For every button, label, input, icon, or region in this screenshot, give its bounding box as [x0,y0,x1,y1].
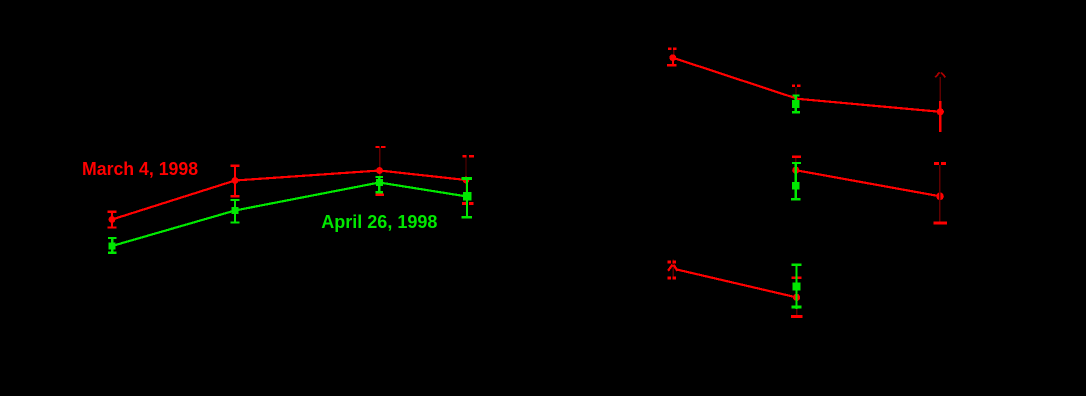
right panel: middle left red marker [792,167,799,174]
right panel: bottom red series line [676,269,797,297]
left panel: red point P1 error bar [108,211,117,229]
right panel: top line point A marker [669,54,676,61]
right panel: top red series line [673,58,941,112]
right panel: bottom right red error bar [791,277,802,318]
left panel: red point P1 marker [109,216,116,223]
right panel: middle left red error bar [792,155,801,166]
left panel: red point P4 error bar dashed [462,155,474,205]
right panel: bottom left red error bar dashes [668,260,677,280]
left panel: green point P4 error bar [462,177,473,218]
left panel: red point P2 marker [232,177,239,184]
text label April 26, 1998 [321,212,437,233]
left panel: red point P4 marker [463,177,470,184]
left panel: green point P2 marker [232,207,239,214]
left panel: green point P1 error bar [108,237,117,254]
left panel: red point P3 error bar dashed top [375,146,385,196]
left panel: red point P2 error bar [231,165,240,198]
left panel: green point P4 marker [463,192,472,200]
text label March 4, 1998 [82,159,198,180]
right panel: point B upper caret [935,72,945,77]
left panel: red series line March 4 [112,171,466,220]
right panel: bottom green marker [793,282,801,290]
right panel: bottom right red marker [793,294,800,301]
right panel: middle red series line [796,170,940,196]
left panel: green point P3 error bar [375,176,383,194]
right panel: bottom left caret marker [668,265,677,271]
right panel: top line green marker [792,100,800,108]
right panel: top line point B marker [937,108,944,115]
left panel: green series line April 26 [112,183,467,247]
left panel: green point P3 marker [376,179,383,186]
left panel: green point P2 error bar [231,199,240,224]
right panel: middle green marker [792,182,800,190]
left panel: red point P3 marker [376,167,383,174]
right panel: middle right red marker [936,193,944,201]
right panel: top line point A error bar [667,48,677,67]
right panel: bottom green error bar [792,263,802,309]
right panel: top line green point error bar [792,95,800,114]
right panel: middle right red error bar [933,162,946,225]
right panel: top line point B error bar with caret [939,77,941,132]
right panel: top line mid point error bar dashes [792,85,800,95]
right panel: middle green error bar [791,162,801,200]
left panel: green point P1 marker [109,243,116,250]
